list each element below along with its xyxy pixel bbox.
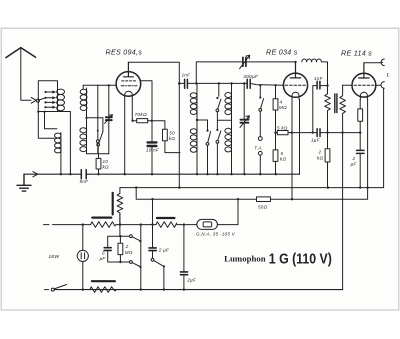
svg-text:5 kΩ: 5 kΩ xyxy=(277,125,288,130)
wire network rails xyxy=(108,236,130,262)
svg-text:50: 50 xyxy=(169,131,175,136)
terminal on L3 xyxy=(96,140,99,143)
resistor R3 50k xyxy=(152,121,180,153)
capacitor C10 1uF xyxy=(317,129,320,137)
wire V2 cathode right leg to ground bus end xyxy=(299,99,301,174)
wire L4 tap to switch S2 xyxy=(197,120,208,130)
svg-text:2µF: 2µF xyxy=(186,277,197,282)
resistor R12 50ohm xyxy=(257,197,271,202)
svg-text:1 G (110 V): 1 G (110 V) xyxy=(269,252,332,268)
wire RF line xyxy=(196,83,283,85)
node dots mains bus xyxy=(151,198,239,200)
cathode loop of V1 xyxy=(125,91,133,98)
switch S9 mains xyxy=(51,288,54,291)
switch S4 xyxy=(216,129,218,131)
wire V1 cathode right leg xyxy=(131,99,133,121)
svg-text:6: 6 xyxy=(102,251,105,256)
svg-text:kΩ: kΩ xyxy=(169,136,176,141)
resistor R14 heater with bar xyxy=(156,222,177,228)
node grid junction xyxy=(108,84,110,86)
switch S1 wave change xyxy=(99,132,103,143)
wire V1 grid cap lead xyxy=(141,81,152,121)
svg-text:MΩ: MΩ xyxy=(279,105,287,110)
ground xyxy=(17,174,31,191)
antenna selector contact circle xyxy=(36,99,39,102)
wire 2M network riser xyxy=(119,213,122,262)
coil L2 secondary xyxy=(55,133,62,153)
svg-text:RES 094,s: RES 094,s xyxy=(106,48,143,57)
terminal speaker upper xyxy=(381,59,384,66)
cathode loop of V2 xyxy=(292,92,299,99)
svg-text:kΩ: kΩ xyxy=(317,156,324,161)
arrow on ground bus xyxy=(33,172,38,177)
wire L2 bottom to ground bus xyxy=(60,153,62,174)
switch S7 lower xyxy=(130,261,133,264)
wire lamp to mains bus xyxy=(217,199,238,224)
wire padder column xyxy=(243,83,245,174)
wire L1 to L2 left xyxy=(38,112,54,139)
wire L1 to L2 right xyxy=(45,112,57,129)
trimmer capacitor C2 xyxy=(108,85,110,153)
tube V2 RE034 xyxy=(283,73,307,97)
svg-text:50Ω: 50Ω xyxy=(258,205,268,210)
svg-text:2: 2 xyxy=(125,244,129,249)
anode of V2 xyxy=(290,62,300,78)
svg-text:18W: 18W xyxy=(49,254,60,260)
wire L2 top branch down to ground bus xyxy=(58,112,71,175)
wire HT bus xyxy=(120,187,384,189)
resistor R10 cathode bias xyxy=(359,99,361,132)
resistor R7 anode load zigzag xyxy=(325,85,331,133)
wire R8 down to bottom corner xyxy=(342,133,344,290)
tube V1 RES094s xyxy=(116,72,141,97)
wire V3 right leg down xyxy=(367,99,369,187)
switch S3 xyxy=(216,97,218,99)
svg-text:1nF: 1nF xyxy=(182,73,192,78)
svg-text:4: 4 xyxy=(280,100,283,105)
svg-text:1µF: 1µF xyxy=(311,138,321,143)
coil L4 detector coil upper xyxy=(190,83,197,152)
wire V3 anode side to terminal xyxy=(376,84,381,86)
ground bus wire xyxy=(24,173,300,175)
wire volume line down to bus xyxy=(178,83,180,187)
svg-text:10 nF: 10 nF xyxy=(146,148,160,153)
svg-text:G.N.A. 35 -105 V: G.N.A. 35 -105 V xyxy=(196,232,236,237)
wire V1 anode to right xyxy=(128,62,179,83)
antenna arrow into selector xyxy=(31,97,36,103)
cathode loop of V3 xyxy=(360,92,367,99)
wire V3 anode to speaker terminal xyxy=(364,61,383,64)
svg-text:T.A.: T.A. xyxy=(254,146,263,151)
node dots HT bus xyxy=(135,186,369,188)
svg-text:RE 034 s: RE 034 s xyxy=(266,48,298,57)
capacitor C5 300uF coupling xyxy=(247,79,250,88)
lamp 18W xyxy=(82,225,84,290)
svg-text:2: 2 xyxy=(352,156,356,161)
wire switch tap to L6 xyxy=(217,119,231,121)
wire phono column xyxy=(259,85,261,96)
capacitor C1 5nF xyxy=(81,170,86,179)
node L4 tap xyxy=(196,119,198,121)
resistor R13 heater with bar xyxy=(91,222,116,228)
wire bias line xyxy=(292,132,360,134)
svg-text:µF: µF xyxy=(351,162,358,167)
resistor R16 heater with bar xyxy=(90,287,117,293)
resistor R6 5k vertical xyxy=(275,133,277,175)
capacitor C12 6uF xyxy=(104,248,111,251)
wire L3 tap to wave switch xyxy=(87,118,103,132)
node R4 bottom xyxy=(274,131,276,133)
capacitor C14 2uF output xyxy=(183,225,185,290)
svg-text:10: 10 xyxy=(103,159,109,164)
coil L3 grid coil xyxy=(80,85,109,153)
svg-text:70kΩ: 70kΩ xyxy=(135,112,147,118)
coil L6 oscillator upper xyxy=(225,83,232,153)
coil L5 detector coil lower xyxy=(190,129,197,153)
resistor R9 2k xyxy=(327,133,329,188)
wire switch column down xyxy=(140,225,142,290)
node L1 bottom taps xyxy=(37,111,39,113)
resistor R4 4M grid leak xyxy=(275,85,277,131)
svg-text:5: 5 xyxy=(281,151,284,156)
coil L8 anode choke xyxy=(302,59,328,85)
wire top tank bus xyxy=(196,62,295,84)
grid dashes of V3 xyxy=(354,84,374,86)
switch S8 xyxy=(151,258,154,261)
capacitor C9 coupling plates xyxy=(335,94,337,113)
wire V3 grid xyxy=(343,84,352,86)
trimmer capacitor C7 xyxy=(240,120,248,123)
node dots heater row xyxy=(82,223,185,225)
capacitor C11 2uF xyxy=(359,133,361,188)
svg-text:2 µF: 2 µF xyxy=(158,248,170,253)
antenna tap arrows xyxy=(44,90,56,108)
lamp barretter GNA xyxy=(197,219,218,229)
resistor R5 5k horizontal xyxy=(276,132,292,134)
switch S6 upper xyxy=(130,235,133,238)
terminal mains stub xyxy=(44,289,48,291)
node dots network xyxy=(119,235,121,237)
svg-text:2: 2 xyxy=(318,150,322,155)
wire selector to tap xyxy=(39,98,45,100)
capacitor C4 1nF xyxy=(179,82,196,84)
node dots on RF wire xyxy=(195,82,245,84)
wire heater row xyxy=(44,224,197,226)
capacitor C13 2uF xyxy=(152,199,154,258)
wire speaker return down xyxy=(383,88,385,187)
svg-text:RE 114 s: RE 114 s xyxy=(341,49,372,58)
grid dashes of V2 xyxy=(285,84,306,86)
variable capacitor C6 tuning xyxy=(243,57,246,66)
capacitor C3 10nF xyxy=(151,121,153,175)
terminal speaker lower xyxy=(381,82,384,89)
wire bottom mains bus xyxy=(54,289,342,291)
coil L7 oscillator lower xyxy=(225,128,232,152)
resistor R8 grid leak zigzag xyxy=(340,85,346,132)
capacitor C8 1nF xyxy=(313,86,328,133)
coil L1 antenna coil with taps xyxy=(38,81,64,112)
wire L6 bottom to ground xyxy=(231,154,233,174)
svg-text:1nF: 1nF xyxy=(314,76,324,81)
svg-text:Lumophon: Lumophon xyxy=(224,254,266,263)
terminal TA lower xyxy=(258,151,262,155)
svg-text:MΩ: MΩ xyxy=(125,250,133,255)
wire V2 cathode left leg xyxy=(291,99,293,199)
resistor R2 70k xyxy=(137,119,148,123)
wire antenna lead-in xyxy=(21,48,31,101)
anode of V3 xyxy=(359,63,369,78)
svg-text:kΩ: kΩ xyxy=(280,157,287,162)
resistor R15 2M xyxy=(118,243,123,254)
switch S2 xyxy=(206,130,208,132)
tube V3 RE114 xyxy=(352,73,376,97)
svg-text:5nF: 5nF xyxy=(80,179,90,184)
svg-text:300µF: 300µF xyxy=(243,74,259,80)
grid dashes of V1 xyxy=(122,80,137,82)
node dots bottom bus xyxy=(82,288,185,290)
svg-text:kΩ: kΩ xyxy=(103,164,110,169)
node V2 anode top xyxy=(294,61,296,63)
terminal TA upper xyxy=(258,137,262,141)
resistor R11 dropper with bar xyxy=(117,188,123,225)
resistor R1 10k xyxy=(98,154,100,175)
antenna xyxy=(6,48,36,58)
wire mains bus xyxy=(136,188,367,200)
wire grid of V1 xyxy=(83,84,116,86)
wire V1 cathode left leg to ground bus xyxy=(124,99,126,175)
node dots bias line xyxy=(326,131,328,133)
wire band switch column xyxy=(218,83,220,96)
svg-text:µF: µF xyxy=(100,256,107,261)
wire L4 bottom to ground xyxy=(196,153,198,175)
anode of V1 xyxy=(123,62,133,77)
node L3 tap xyxy=(85,117,87,119)
node dots on ground bus xyxy=(60,173,277,175)
svg-text:L: L xyxy=(386,73,390,79)
switch S5 phono xyxy=(259,96,261,98)
